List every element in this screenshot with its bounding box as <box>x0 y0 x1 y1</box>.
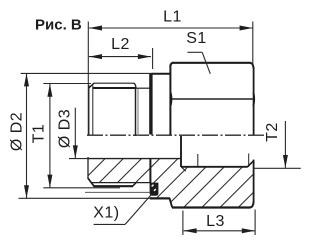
D2 dimension line <box>26 74 28 199</box>
L2 dimension line <box>89 56 151 58</box>
L3 right extension line <box>254 210 256 236</box>
D2 bottom arrow <box>24 185 29 198</box>
collar top <box>152 73 171 75</box>
countersink cone line <box>181 167 186 171</box>
chamfer transition line <box>92 86 94 135</box>
stud chamfer top-left <box>88 83 94 88</box>
hex corner chamfer top-right <box>250 63 253 69</box>
hex left edge <box>169 65 171 135</box>
stud end face <box>88 85 90 135</box>
svg-text:T1: T1 <box>31 124 48 144</box>
collar extension line <box>85 191 150 193</box>
svg-text:Ø D2: Ø D2 <box>9 112 26 151</box>
bore D3 line <box>88 158 181 160</box>
S1 leader underline <box>187 51 202 53</box>
X1 leader diagonal <box>125 194 152 225</box>
T2 extension line <box>254 167 301 169</box>
svg-text:Рис. B: Рис. B <box>35 16 82 33</box>
hex corner chamfer bottom-right <box>250 202 253 208</box>
L2 left arrow <box>89 54 102 59</box>
S1 leader diagonal <box>202 52 210 74</box>
hex right face (top half) <box>253 67 255 135</box>
T1 bottom extension line <box>43 187 120 189</box>
hex corner chamfer bottom-left <box>169 198 172 208</box>
neck top line <box>136 87 150 89</box>
svg-text:X1): X1) <box>93 204 119 221</box>
L1 right arrow <box>240 26 253 31</box>
seal face bar <box>149 73 152 135</box>
T1 bottom arrow <box>47 175 52 188</box>
thread end line <box>135 88 137 137</box>
thread root / shank line (thick) <box>93 87 136 89</box>
collar outer (section) <box>150 197 170 199</box>
svg-text:L2: L2 <box>111 36 130 53</box>
hatched section (bottom half) <box>52 130 320 212</box>
hex corner chamfer top-left <box>171 63 174 66</box>
facet joint knots <box>170 93 173 106</box>
seal X1 (black blob) <box>150 183 159 196</box>
D3 extension line <box>69 158 89 160</box>
L1 dimension line <box>89 27 253 29</box>
L3 left extension line <box>182 211 184 236</box>
seal speckles <box>151 184 154 187</box>
thread end step (section) <box>133 183 136 186</box>
L3 right arrow <box>242 228 255 233</box>
D3 arrow <box>73 145 78 158</box>
X1 leader underline <box>94 223 126 225</box>
T1 top arrow <box>47 84 52 97</box>
svg-text:S1: S1 <box>186 30 207 47</box>
svg-text:L3: L3 <box>206 213 225 230</box>
crest-to-root corner <box>134 83 136 88</box>
female thread bore line <box>181 166 248 168</box>
L3 left arrow <box>184 228 197 233</box>
svg-text:Ø D3: Ø D3 <box>57 109 74 148</box>
hex top <box>172 62 251 64</box>
L3 dimension line <box>184 230 255 232</box>
stud end face (section) <box>87 157 89 179</box>
hex bottom <box>172 206 251 208</box>
thread crest top (thin) <box>93 82 133 84</box>
hex facet line <box>171 98 254 100</box>
T2 leader line <box>284 121 286 168</box>
T2 arrow <box>283 155 288 168</box>
entry chamfer projection line <box>248 154 250 167</box>
thread runout line <box>137 89 139 137</box>
stud chamfer bottom-left <box>88 178 94 186</box>
L1 right extension line <box>252 22 254 65</box>
D3 leader line <box>74 108 76 158</box>
svg-text:T2: T2 <box>264 122 281 142</box>
bore entry chamfer <box>247 160 254 167</box>
D2 top arrow <box>24 73 29 86</box>
T1 top extension line <box>43 83 91 85</box>
hex right face (section) <box>253 160 255 203</box>
T1 dimension line <box>49 84 51 188</box>
L2 right extension line <box>152 48 154 69</box>
thread runout line (female) <box>197 154 199 167</box>
svg-text:L1: L1 <box>163 9 182 26</box>
collar face (section) <box>149 159 151 183</box>
D2 top extension line <box>21 72 153 74</box>
L1 left extension line <box>87 22 89 135</box>
thread end face (female) <box>180 136 182 167</box>
L1 left arrow <box>89 26 102 31</box>
D2 bottom extension line <box>19 197 150 199</box>
thread crest bottom (section) <box>94 185 134 187</box>
neck bottom (section) <box>91 182 150 184</box>
L2 right arrow <box>138 54 151 59</box>
centerline <box>87 134 265 136</box>
